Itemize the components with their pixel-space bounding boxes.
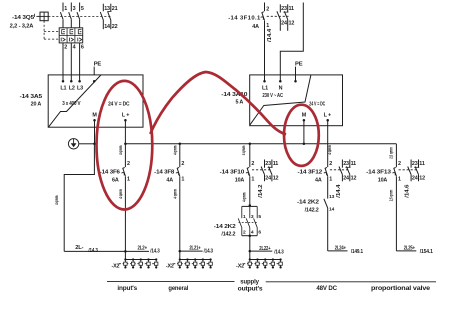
- svg-text:1: 1: [181, 177, 184, 183]
- svg-text:11: 11: [351, 161, 357, 167]
- svg-text:21: 21: [112, 6, 118, 12]
- svg-text:4 qmm: 4 qmm: [172, 145, 178, 155]
- svg-text:L1: L1: [60, 86, 66, 92]
- svg-text:13: 13: [104, 6, 110, 12]
- svg-text:2: 2: [398, 161, 401, 167]
- svg-text:-14 2K2: -14 2K2: [297, 200, 320, 206]
- svg-text:2L22+: 2L22+: [259, 246, 270, 252]
- svg-text:-14 3F10: -14 3F10: [220, 170, 246, 176]
- svg-text:1: 1: [64, 6, 67, 12]
- svg-text:L3: L3: [77, 86, 83, 92]
- svg-text:48V DC: 48V DC: [316, 285, 337, 292]
- svg-text:1: 1: [266, 23, 269, 29]
- svg-text:L +: L +: [324, 113, 331, 119]
- svg-text:/14.4: /14.4: [336, 184, 342, 197]
- svg-text:23: 23: [412, 161, 418, 167]
- svg-text:-X2: -X2: [236, 264, 244, 270]
- svg-text:24: 24: [281, 21, 287, 27]
- svg-text:2,2 - 3,2A: 2,2 - 3,2A: [10, 24, 34, 30]
- svg-text:23: 23: [281, 6, 287, 12]
- svg-text:-14 3F8: -14 3F8: [154, 170, 175, 176]
- svg-text:-14 3F13: -14 3F13: [366, 170, 392, 176]
- svg-text:4 qmm: 4 qmm: [118, 145, 124, 155]
- svg-text:L2: L2: [69, 86, 75, 92]
- svg-text:1: 1: [243, 214, 246, 220]
- svg-text:2L2+: 2L2+: [138, 246, 148, 252]
- svg-text:M: M: [302, 113, 307, 119]
- svg-text:12: 12: [273, 176, 279, 182]
- svg-text:/14.3: /14.3: [88, 248, 98, 254]
- svg-text:PE: PE: [295, 61, 303, 67]
- svg-text:1: 1: [127, 177, 130, 183]
- svg-text:/142.2: /142.2: [305, 207, 319, 213]
- svg-text:-14 3A5: -14 3A5: [20, 94, 43, 100]
- svg-text:2L21+: 2L21+: [189, 246, 200, 252]
- svg-text:/149.1: /149.1: [351, 249, 363, 255]
- svg-text:2,5 qmm: 2,5 qmm: [389, 147, 395, 159]
- svg-text:10A: 10A: [378, 178, 388, 184]
- svg-text:23: 23: [343, 161, 349, 167]
- svg-text:-14 3F12: -14 3F12: [298, 170, 324, 176]
- svg-text:6: 6: [258, 230, 261, 236]
- svg-text:24: 24: [265, 176, 271, 182]
- svg-text:3 x 400 V: 3 x 400 V: [62, 101, 81, 107]
- svg-text:1: 1: [398, 177, 401, 183]
- svg-text:11: 11: [289, 6, 295, 12]
- svg-text:1: 1: [251, 177, 254, 183]
- svg-text:/142.2: /142.2: [221, 232, 235, 238]
- svg-text:/14.4: /14.4: [267, 29, 273, 42]
- svg-text:230 V ~ AC: 230 V ~ AC: [262, 93, 283, 99]
- svg-text:4 qmm: 4 qmm: [173, 189, 179, 199]
- svg-text:24 V = DC: 24 V = DC: [309, 102, 325, 108]
- svg-text:2L-: 2L-: [75, 245, 84, 251]
- svg-text:4: 4: [73, 45, 76, 51]
- svg-text:5: 5: [258, 214, 261, 220]
- svg-text:14: 14: [329, 206, 335, 212]
- svg-text:PE: PE: [94, 61, 102, 67]
- svg-text:12: 12: [351, 176, 357, 182]
- svg-text:-X2: -X2: [166, 264, 174, 270]
- svg-text:11: 11: [419, 161, 425, 167]
- svg-text:2: 2: [251, 161, 254, 167]
- svg-text:L +: L +: [122, 113, 129, 119]
- svg-text:input's: input's: [117, 285, 137, 292]
- svg-text:2: 2: [181, 161, 184, 167]
- svg-text:11: 11: [273, 161, 279, 167]
- svg-text:N: N: [279, 85, 283, 91]
- svg-text:/14.3: /14.3: [204, 249, 214, 255]
- svg-text:/14.3: /14.3: [150, 249, 160, 255]
- svg-text:24: 24: [412, 176, 418, 182]
- svg-text:5 A: 5 A: [235, 100, 243, 106]
- svg-text:2: 2: [266, 6, 269, 12]
- svg-text:/14.6: /14.6: [405, 184, 411, 197]
- svg-text:/14.2: /14.2: [258, 184, 264, 197]
- svg-text:output's: output's: [238, 285, 264, 292]
- svg-text:proportional valve: proportional valve: [371, 285, 431, 292]
- svg-text:22: 22: [112, 24, 118, 30]
- svg-text:general: general: [168, 285, 188, 292]
- svg-text:12: 12: [289, 21, 295, 27]
- svg-text:4 qmm: 4 qmm: [118, 189, 124, 199]
- svg-text:23: 23: [265, 161, 271, 167]
- svg-text:2: 2: [329, 161, 332, 167]
- svg-text:24 V = DC: 24 V = DC: [108, 101, 130, 107]
- svg-text:4 qmm: 4 qmm: [242, 192, 248, 202]
- svg-text:2L24+: 2L24+: [335, 245, 346, 251]
- svg-text:L1: L1: [262, 85, 268, 91]
- svg-text:14: 14: [104, 24, 110, 30]
- svg-text:2,5 qmm: 2,5 qmm: [388, 189, 394, 201]
- svg-text:2L25+: 2L25+: [404, 245, 415, 251]
- svg-text:10A: 10A: [235, 178, 245, 184]
- svg-text:-14 3F10.1: -14 3F10.1: [228, 15, 261, 21]
- svg-text:4A: 4A: [252, 24, 259, 30]
- svg-text:4 qmm: 4 qmm: [241, 145, 247, 155]
- svg-text:6: 6: [81, 45, 84, 51]
- svg-text:1: 1: [329, 177, 332, 183]
- svg-text:4: 4: [251, 230, 254, 236]
- svg-text:20 A: 20 A: [31, 102, 42, 108]
- svg-text:-14 2K2: -14 2K2: [214, 224, 237, 230]
- svg-text:4 qmm: 4 qmm: [54, 195, 60, 205]
- svg-text:-X2: -X2: [111, 264, 119, 270]
- svg-text:4A: 4A: [315, 178, 322, 184]
- svg-text:-14 3F6: -14 3F6: [100, 170, 121, 176]
- svg-text:5: 5: [81, 6, 84, 12]
- svg-text:M: M: [92, 113, 97, 119]
- svg-text:12: 12: [419, 176, 425, 182]
- svg-text:2: 2: [243, 230, 246, 236]
- svg-text:/14.3: /14.3: [274, 249, 284, 255]
- svg-text:13: 13: [329, 194, 335, 200]
- svg-text:-14 3Q5: -14 3Q5: [12, 15, 35, 21]
- svg-text:2: 2: [64, 45, 67, 51]
- svg-text:6A: 6A: [112, 178, 119, 184]
- svg-text:4A: 4A: [166, 178, 173, 184]
- svg-text:2: 2: [127, 161, 130, 167]
- svg-text:3: 3: [73, 6, 76, 12]
- svg-text:24: 24: [343, 176, 349, 182]
- svg-text:4 qmm: 4 qmm: [327, 145, 333, 155]
- svg-text:3: 3: [251, 214, 254, 220]
- svg-text:/154.1: /154.1: [420, 249, 433, 255]
